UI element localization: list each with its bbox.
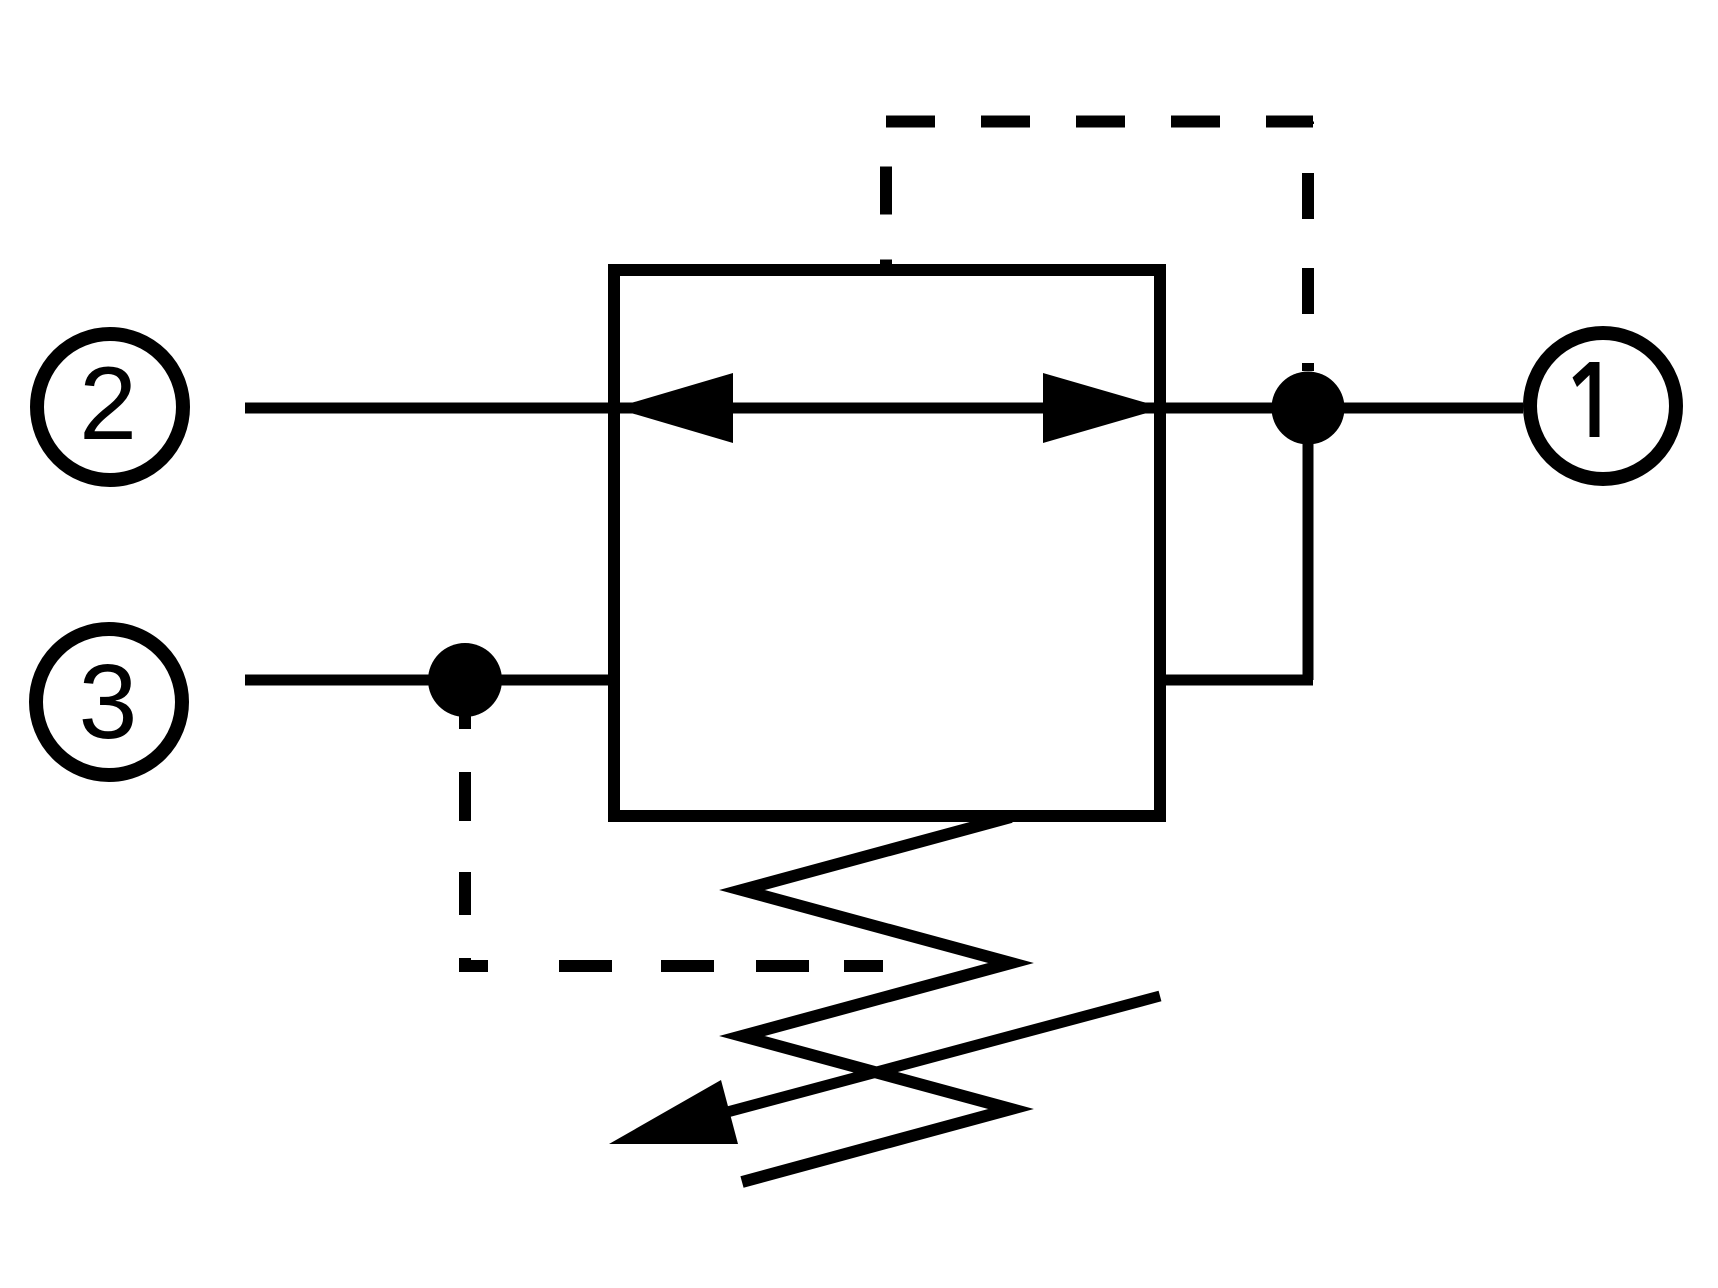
port circle 2 [37, 334, 183, 480]
port circle 3 [36, 629, 182, 775]
pilot dashed port3 vertical [459, 680, 471, 972]
svg-text:2: 2 [79, 346, 137, 462]
arrowhead right [1043, 373, 1164, 443]
feedback wire vertical [1303, 408, 1314, 680]
svg-text:3: 3 [79, 643, 138, 761]
pilot dashed right vertical [1302, 122, 1314, 372]
spring [742, 817, 1011, 1182]
arrowhead left [614, 373, 733, 443]
junction node port1 [1272, 372, 1345, 445]
adjustment arrowhead [609, 1080, 738, 1144]
port circle 1 [1530, 333, 1676, 479]
pilot dashed left vertical [880, 122, 892, 265]
valve body [614, 270, 1160, 816]
pilot dashed top horizontal [886, 116, 1313, 128]
adjustment arrow shaft [690, 996, 1160, 1122]
feedback wire horizontal [1160, 675, 1313, 686]
junction node port3 [428, 643, 502, 717]
wire main line port2 to port1 [245, 403, 1523, 414]
pilot dashed port3 horizontal [459, 960, 885, 972]
wire port3 [245, 675, 614, 686]
